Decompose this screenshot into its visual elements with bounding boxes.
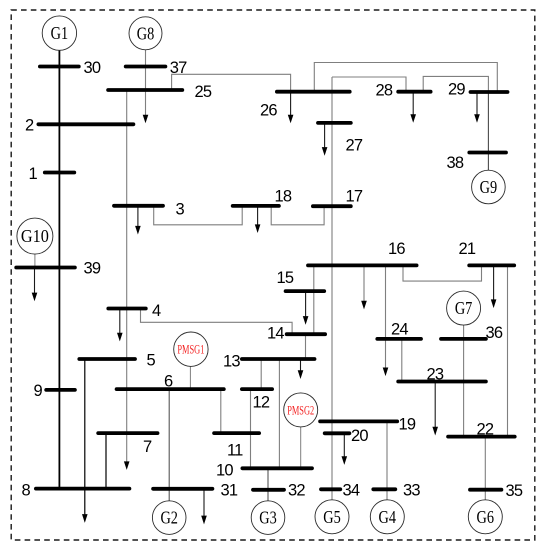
busbar 13 [242, 357, 315, 361]
load arrow bus29 [474, 92, 480, 123]
busbar 2 [38, 122, 133, 126]
wire bus28 to bus29 [423, 76, 488, 92]
wire bus16 to bus21 [403, 265, 482, 281]
busbar 22 [448, 435, 515, 439]
busbar 20 [325, 431, 350, 435]
svg-text:34: 34 [343, 482, 360, 500]
wire G10 to bus39 [34, 254, 36, 267]
busbar 24 [377, 337, 421, 341]
wire G1 bus30 bus2 bus1 bus39 bus9 bus8 black vertical [58, 50, 60, 488]
svg-text:32: 32 [288, 482, 305, 500]
generator G6 [468, 500, 502, 534]
generator G8 [129, 17, 162, 50]
wire bus13 to bus10 [278, 359, 280, 468]
busbar 15 [286, 289, 325, 293]
busbar 19 [320, 419, 397, 423]
busbar 37 [126, 65, 166, 69]
wire bus18 to bus17 [271, 206, 324, 225]
load arrow bus31 [201, 489, 207, 525]
wire bus14 to bus13 [305, 334, 307, 359]
svg-text:4: 4 [152, 302, 161, 320]
svg-text:35: 35 [506, 482, 523, 500]
svg-text:2: 2 [25, 117, 34, 135]
svg-text:G10: G10 [21, 226, 49, 246]
generator G10 [17, 218, 53, 254]
svg-text:G4: G4 [379, 507, 397, 527]
svg-text:20: 20 [351, 427, 368, 445]
svg-text:14: 14 [267, 325, 284, 343]
generator G4 [370, 500, 404, 534]
wire bus26 bus27 bus17 bus16 bus19 bus20 bus34 long vertical to G5 [331, 77, 333, 500]
wire bus3 to bus18 [154, 206, 243, 225]
svg-text:G3: G3 [259, 508, 277, 528]
busbar 39 [16, 266, 75, 270]
svg-text:29: 29 [448, 81, 465, 99]
svg-text:10: 10 [216, 462, 233, 480]
svg-text:31: 31 [221, 482, 238, 500]
busbar 30 [40, 65, 79, 69]
load arrow bus13 [298, 360, 304, 379]
svg-text:8: 8 [22, 482, 31, 500]
wire bus22 to bus35 to G6 [484, 437, 486, 500]
busbar 34 [321, 487, 340, 491]
wire bus29 to bus38 to G9 [487, 92, 489, 170]
svg-text:G9: G9 [480, 177, 498, 197]
busbar 10 [242, 466, 312, 470]
wire bus13 to bus12 [260, 359, 262, 389]
busbar 3 [114, 204, 163, 208]
busbar 8 [36, 487, 129, 491]
svg-text:21: 21 [459, 240, 476, 258]
svg-text:19: 19 [399, 416, 416, 434]
svg-text:9: 9 [34, 382, 43, 400]
wire bus6 to bus31 to G2 [168, 389, 170, 501]
wire G8 to bus37 to bus25 with load arrow [143, 50, 149, 123]
svg-text:16: 16 [388, 240, 405, 258]
load arrow bus20 [342, 433, 348, 465]
wire bus4 to bus14 [141, 309, 293, 335]
load arrow bus4 [117, 309, 123, 342]
busbar 23 [398, 380, 486, 384]
wire PMSG2 to bus10 [300, 427, 302, 468]
load arrow bus21 [491, 265, 497, 308]
wire bus25 to bus2..bus7 long line with load arrow below bus 7 [124, 90, 130, 470]
busbar 25 [108, 88, 182, 92]
svg-text:G2: G2 [160, 508, 178, 528]
svg-text:G5: G5 [323, 507, 341, 527]
wire bus26 to bus29 [314, 63, 497, 93]
svg-text:22: 22 [477, 421, 494, 439]
svg-text:39: 39 [84, 260, 101, 278]
busbar 16 [308, 263, 417, 267]
wire bus25 to bus26 [172, 74, 291, 91]
busbar 6 [117, 387, 224, 391]
svg-text:26: 26 [260, 102, 277, 120]
wire bus19 to bus33 to G4 [386, 421, 388, 499]
busbar 33 [373, 487, 395, 491]
svg-text:G8: G8 [137, 23, 155, 43]
wire bus26 to bus28 [332, 77, 406, 92]
load arrow bus26 [288, 92, 294, 124]
generator G1 [42, 16, 76, 50]
svg-text:30: 30 [84, 59, 101, 77]
svg-text:33: 33 [403, 482, 420, 500]
busbar 35 [470, 488, 501, 492]
busbar 31 [153, 487, 212, 491]
svg-text:5: 5 [147, 352, 156, 370]
busbar 1 [45, 171, 75, 175]
wire bus16 bus15 bus14 [313, 265, 315, 334]
busbar 14 [287, 332, 325, 336]
busbar 26 [277, 90, 350, 94]
busbar 5 [79, 357, 135, 361]
wire bus7 to bus8 [105, 433, 107, 489]
generator G2 [152, 501, 186, 535]
load arrow bus3 [135, 206, 141, 235]
load arrow bus27 [322, 123, 328, 156]
busbar 28 [398, 90, 430, 94]
busbar 36 [441, 337, 486, 341]
svg-text:24: 24 [391, 321, 408, 339]
wind generator PMSG2 [284, 393, 318, 427]
svg-text:G7: G7 [455, 298, 473, 318]
svg-text:15: 15 [277, 269, 294, 287]
busbar 38 [469, 151, 506, 155]
busbar 12 [242, 387, 272, 391]
busbar 7 [98, 431, 157, 435]
svg-text:3: 3 [176, 201, 185, 219]
busbar 4 [108, 307, 146, 311]
wire bus10 to bus32 to G3 [267, 468, 269, 501]
load arrow bus18 [255, 206, 261, 233]
generator G7 [447, 291, 481, 325]
load arrow bus15 [303, 291, 309, 325]
wire bus21 to bus22 [507, 265, 509, 436]
svg-text:25: 25 [195, 83, 212, 101]
generator G5 [315, 500, 349, 534]
svg-text:23: 23 [427, 366, 444, 384]
svg-text:G1: G1 [51, 23, 69, 43]
svg-text:6: 6 [164, 373, 173, 391]
svg-text:27: 27 [346, 137, 363, 155]
wire bus12 to bus10 across bus11 [250, 389, 252, 468]
load arrow bus23 [432, 382, 438, 436]
generator G9 [472, 170, 506, 204]
svg-text:PMSG2: PMSG2 [287, 403, 314, 418]
svg-text:PMSG1: PMSG1 [177, 342, 204, 357]
busbar 27 [318, 121, 351, 125]
generator G3 [251, 501, 285, 535]
busbar 9 [46, 388, 75, 392]
svg-text:37: 37 [170, 59, 187, 77]
svg-text:12: 12 [253, 394, 270, 412]
busbar 29 [471, 90, 508, 94]
wire bus5 to bus8 with load arrow below bus8 [82, 359, 88, 523]
load arrow bus39 [32, 268, 38, 302]
busbar 18 [233, 204, 279, 208]
svg-text:13: 13 [223, 353, 240, 371]
wire bus24 to bus23 [401, 339, 403, 382]
busbar 21 [469, 263, 514, 267]
load arrow bus16 [361, 265, 367, 309]
svg-text:11: 11 [227, 442, 243, 460]
busbar 17 [313, 204, 351, 208]
svg-text:36: 36 [486, 324, 503, 342]
wind generator PMSG1 [174, 332, 208, 366]
svg-text:17: 17 [346, 188, 363, 206]
wire bus6 to bus11 [220, 389, 222, 433]
svg-text:G6: G6 [477, 507, 495, 527]
svg-text:28: 28 [376, 82, 393, 100]
svg-text:1: 1 [29, 165, 38, 183]
wire G7 bus36 bus23 bus22 [463, 325, 465, 436]
svg-text:38: 38 [447, 154, 464, 172]
busbar 32 [253, 488, 284, 492]
svg-text:7: 7 [143, 438, 152, 456]
load arrow bus28 [410, 92, 416, 123]
busbar 11 [214, 431, 259, 435]
wire PMSG1 to bus6 [189, 365, 191, 389]
svg-text:18: 18 [275, 188, 292, 206]
wire bus16 to bus24 with load arrow below bus24 [383, 265, 389, 376]
